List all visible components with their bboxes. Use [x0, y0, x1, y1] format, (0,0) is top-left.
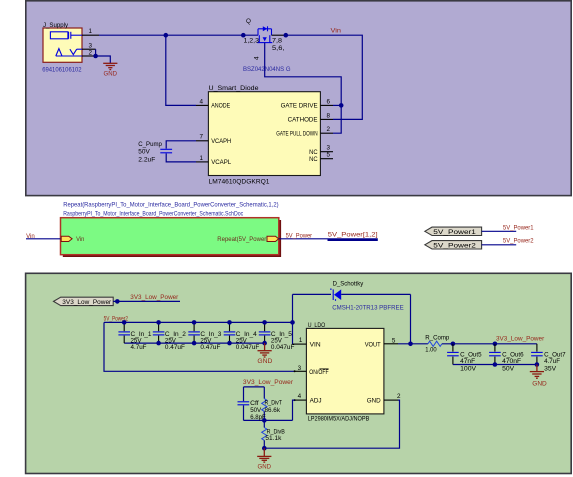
svg-text:4: 4 [254, 56, 261, 60]
svg-text:47nF: 47nF [460, 358, 475, 365]
svg-text:C_Pump: C_Pump [138, 141, 162, 148]
svg-text:7: 7 [200, 134, 204, 141]
svg-text:LM74610QDGKRQ1: LM74610QDGKRQ1 [209, 178, 271, 185]
svg-text:NC: NC [309, 149, 318, 156]
svg-text:3V3_Low_Power: 3V3_Low_Power [496, 336, 544, 343]
svg-text:50V: 50V [502, 366, 515, 373]
svg-text:4.7uF: 4.7uF [544, 358, 560, 365]
svg-text:3: 3 [298, 365, 302, 372]
svg-text:0.47uF: 0.47uF [200, 344, 220, 351]
svg-text:U_LDO: U_LDO [308, 322, 326, 329]
svg-text:GND: GND [257, 358, 272, 365]
svg-text:Q: Q [246, 18, 251, 25]
svg-text:51.1k: 51.1k [265, 435, 282, 442]
svg-text:6.8pF: 6.8pF [250, 414, 266, 421]
svg-text:5: 5 [327, 152, 331, 159]
svg-text:3: 3 [327, 145, 331, 152]
svg-text:5V_Power1: 5V_Power1 [503, 225, 534, 232]
svg-text:Cff: Cff [250, 400, 259, 407]
svg-text:3V3_Low_Power: 3V3_Low_Power [243, 379, 293, 386]
svg-text:100V: 100V [460, 366, 477, 373]
svg-text:2.2uF: 2.2uF [138, 157, 155, 164]
svg-text:694106106102: 694106106102 [42, 67, 82, 74]
svg-text:3V3_Low_Power: 3V3_Low_Power [62, 299, 111, 306]
svg-text:5V_Power2: 5V_Power2 [433, 242, 476, 249]
svg-text:50V: 50V [138, 149, 150, 156]
svg-text:1,2,3: 1,2,3 [244, 38, 260, 45]
svg-text:VOUT: VOUT [365, 342, 381, 349]
svg-text:5V_Power[1,2]: 5V_Power[1,2] [328, 232, 378, 239]
svg-text:GND: GND [367, 398, 381, 405]
svg-text:GATE DRIVE: GATE DRIVE [281, 103, 318, 110]
svg-text:35V: 35V [544, 366, 557, 373]
svg-text:Vin: Vin [26, 233, 35, 240]
svg-text:ON/OFF: ON/OFF [309, 369, 328, 376]
svg-text:GND: GND [104, 70, 118, 77]
svg-text:VIN: VIN [310, 342, 321, 349]
svg-text:1.00: 1.00 [425, 347, 437, 354]
svg-text:ADJ: ADJ [310, 398, 322, 405]
svg-text:LP2980IM5X/ADJ/NOPB: LP2980IM5X/ADJ/NOPB [308, 416, 370, 423]
svg-text:Vin: Vin [331, 28, 342, 35]
svg-text:D_Schottky: D_Schottky [333, 280, 364, 287]
svg-text:86.6k: 86.6k [265, 407, 281, 414]
svg-text:1: 1 [200, 155, 204, 162]
svg-text:ANODE: ANODE [211, 103, 230, 110]
svg-text:4: 4 [200, 98, 204, 105]
svg-text:8: 8 [327, 112, 331, 119]
svg-text:6: 6 [327, 98, 331, 105]
svg-text:0.47uF: 0.47uF [165, 344, 185, 351]
svg-text:2: 2 [397, 393, 401, 400]
svg-text:J_Supply: J_Supply [43, 22, 69, 29]
svg-text:2: 2 [89, 49, 93, 56]
svg-text:R_DivT: R_DivT [265, 400, 283, 407]
svg-text:0.047uF: 0.047uF [236, 344, 260, 351]
svg-text:3V3_Low_Power: 3V3_Low_Power [130, 294, 178, 301]
svg-text:VCAPL: VCAPL [211, 159, 231, 166]
svg-text:4: 4 [298, 393, 302, 400]
svg-text:1: 1 [299, 337, 303, 344]
svg-text:R_Comp: R_Comp [425, 335, 449, 342]
svg-text:470nF: 470nF [502, 358, 521, 365]
svg-text:5V_Power: 5V_Power [286, 232, 313, 239]
svg-text:NC: NC [309, 156, 318, 163]
svg-text:1: 1 [89, 28, 93, 35]
svg-text:5: 5 [392, 337, 396, 344]
svg-text:5V_Power2: 5V_Power2 [503, 237, 534, 244]
svg-text:5,6,: 5,6, [272, 45, 285, 52]
svg-text:RaspberryPI_To_Motor_Interface: RaspberryPI_To_Motor_Interface_Board_Pow… [63, 211, 243, 218]
svg-text:BSZ042N04NS G: BSZ042N04NS G [243, 66, 291, 73]
svg-text:5V_Power1: 5V_Power1 [433, 229, 476, 236]
svg-text:VCAPH: VCAPH [211, 138, 231, 145]
svg-text:GND: GND [258, 464, 272, 471]
svg-text:0.047uF: 0.047uF [271, 344, 295, 351]
svg-text:CATHODE: CATHODE [288, 117, 318, 124]
svg-text:7,8: 7,8 [272, 38, 283, 45]
svg-text:GND: GND [532, 381, 547, 388]
svg-text:CMSH1-20TR13 PBFREE: CMSH1-20TR13 PBFREE [332, 304, 404, 311]
svg-text:Repeat(RaspberryPI_To_Motor_In: Repeat(RaspberryPI_To_Motor_Interface_Bo… [63, 201, 278, 208]
svg-text:2: 2 [327, 126, 331, 133]
svg-text:4.7uF: 4.7uF [131, 344, 147, 351]
svg-text:Vin: Vin [76, 236, 85, 243]
svg-text:U_Smart_Diode: U_Smart_Diode [209, 85, 260, 92]
svg-text:Repeat(5V_Power: Repeat(5V_Power [217, 236, 266, 243]
svg-text:GATE PULL DOWN: GATE PULL DOWN [276, 130, 318, 137]
